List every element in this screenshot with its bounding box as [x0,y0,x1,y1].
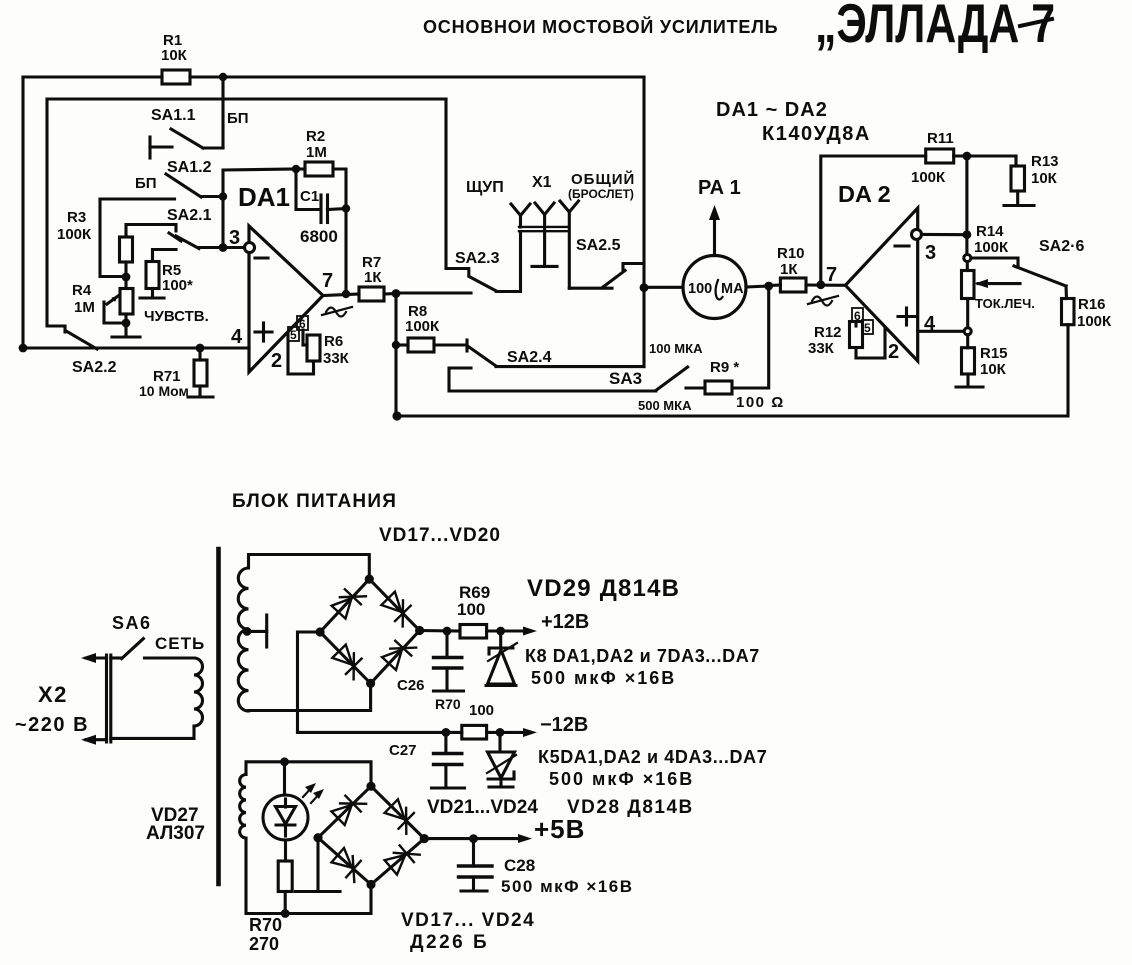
ground bar (X1 bracelet) [532,265,557,268]
svg-text:2: 2 [888,341,899,363]
svg-text:СЕТЬ: СЕТЬ [155,634,205,653]
switch SA2.2 [66,331,97,349]
wire: output to R7 [323,294,359,296]
wire: R11 rail [821,156,926,285]
wire: pin3 node to circle [223,246,245,249]
resistor R15 [962,335,975,386]
wire: R4 to ground [124,314,127,336]
wire: R5 bottom [151,289,154,298]
resistor R13 [1011,166,1025,191]
svg-text:SA3: SA3 [609,369,642,388]
svg-text:R12: R12 [814,324,842,341]
node: DA2 pin3 junction [963,230,972,239]
svg-text:SA2.2: SA2.2 [72,359,117,376]
ground (R13) [1004,204,1034,207]
meter PA1 [683,256,746,319]
wire: bridge2 right output [424,837,473,840]
svg-text:100К: 100К [974,239,1009,256]
node: bridge2 bottom [366,880,375,889]
svg-text:VD17... VD24: VD17... VD24 [401,910,535,931]
svg-text:R16: R16 [1078,296,1106,313]
title: ЭЛЛАДА 7 [815,0,1055,54]
svg-text:МА: МА [721,281,744,297]
-12V arrow [500,728,537,737]
svg-text:1К: 1К [364,269,382,286]
transformer primary winding [194,658,203,726]
wire: ОБЩИЙ to SA2.5 [569,287,612,290]
wire: SA2.1 to pin3 node [199,246,223,249]
node: R8 junction [392,341,400,349]
svg-text:С1: С1 [300,188,319,205]
wire: primary bottom [111,726,194,738]
resistor R70 (100) [462,725,487,739]
svg-text:SA2·6: SA2·6 [1039,238,1084,255]
svg-text:С26: С26 [397,677,425,694]
svg-text:R15: R15 [980,345,1008,362]
diode VD18 (bridge1 upper-right) [381,592,401,612]
node: left feedback to pin4 [19,344,28,353]
resistor R8 [396,338,466,352]
node: meter left junction [640,283,649,292]
svg-text:Д226 Б: Д226 Б [410,932,489,953]
svg-text:R13: R13 [1031,153,1059,170]
svg-text:SA1.2: SA1.2 [167,159,212,176]
svg-text:VD28 Д814В: VD28 Д814В [567,797,694,818]
rectifier bridge 1 diamond [320,579,420,683]
connector X2 plug [107,655,111,742]
transformer secondary winding 1 [238,568,248,711]
svg-text:DA1: DA1 [238,182,290,212]
transformer secondary winding 2 [240,775,246,839]
svg-text:6800: 6800 [300,227,338,246]
diode VD22 (bridge2 upper-right) [385,799,405,819]
switch SA2.6 [971,258,1066,286]
node: LED branch top [280,757,289,766]
svg-text:ЧУВСТВ.: ЧУВСТВ. [144,308,209,325]
resistor R10 [780,278,806,292]
R4 wiper arrow [104,296,126,323]
resistor R4 (trimmer) [120,289,133,315]
svg-text:7: 7 [826,264,837,286]
svg-text:1М: 1М [74,299,95,316]
wire: R13 to ground [1016,191,1019,205]
svg-text:270: 270 [249,934,279,954]
svg-text:100К: 100К [405,318,440,335]
svg-text:3: 3 [229,227,240,249]
meter scale text 100 µА [688,281,744,297]
wire: LED to R70 [284,840,287,861]
center tap chassis [247,615,267,647]
op-amp DA1 [249,226,323,372]
node: bridge1 bottom [366,679,375,688]
ground (C28) [461,889,487,892]
svg-text:500 МКА: 500 МКА [638,398,692,413]
svg-text:5: 5 [864,321,871,335]
svg-text:БП: БП [227,110,249,127]
node: R11/R13 junction [963,152,972,161]
DA1 output sine symbol [322,307,352,317]
+12V arrow [501,627,537,636]
op-amp DA2 [845,208,917,361]
resistor R3 [120,237,133,262]
svg-text:R10: R10 [777,245,805,262]
svg-text:5: 5 [290,328,297,342]
wire: R5 top to SA2.1 throw [153,250,177,262]
wire: bridge1 right output [420,629,460,633]
ground (R5) [140,296,164,299]
DA1 minus sign [255,256,268,259]
wire: secondary2 top rail [246,762,371,786]
wire: secondary2 bottom rail [246,838,371,914]
ground (bridge2) [296,890,341,893]
svg-text:С27: С27 [389,742,417,759]
resistor R11 [926,149,954,163]
svg-text:(БРОСЛЕТ): (БРОСЛЕТ) [568,187,634,201]
svg-text:R70: R70 [249,915,282,935]
wire: R12 loop to pin2 [856,328,885,358]
DA2 minus sign [895,244,909,247]
rectifier bridge 2 diamond [318,786,424,884]
diode VD24 (bridge2 lower-right) [385,855,406,875]
node: pin3 junction [219,243,228,252]
node: R3/R4 junction [122,273,131,282]
wire: left feedback vertical [21,77,24,348]
wire: tall vertical from top rail to meter node [642,77,645,288]
DA2 inverting circle (pin 3) [912,229,922,239]
node: VD29 junction [496,627,505,636]
switch SA1.1 [150,129,223,158]
svg-text:X1: X1 [532,174,552,191]
wire: R11 right [954,154,1016,157]
wire: vertical SA1.2 node to pin3 node [221,197,224,248]
wire: SA1.1 drop [221,77,224,148]
node: VD28 junction [496,728,505,737]
LED light arrows [303,783,324,803]
zener VD29 [486,631,517,686]
diode VD21 (bridge2 upper-left) [331,805,351,825]
wire: R7 to junction [384,292,396,296]
svg-text:100: 100 [688,281,712,297]
wire: R9 to meter right node [732,286,769,388]
resistor R9 [705,381,732,394]
svg-text:DA1 ~ DA2: DA1 ~ DA2 [716,99,828,121]
svg-text:10 Мом: 10 Мом [139,383,189,399]
svg-text:R4: R4 [72,282,92,299]
wire: top rail left segment [23,75,162,78]
resistor R70 (270) [278,861,292,892]
switch SA1.2 [166,174,223,197]
ground (R71) [188,395,213,398]
node: bridge1 left [316,627,325,636]
wire: R69 out [487,629,501,632]
node: bridge2 left [313,833,322,842]
svg-text:100К: 100К [1077,313,1112,330]
svg-text:500 мкФ ×16В: 500 мкФ ×16В [531,668,676,688]
svg-text:РА 1: РА 1 [698,177,741,199]
R14 wiper arrow [975,279,1021,288]
DA1 plus sign [255,323,272,341]
wire: pin3 to node [922,233,967,236]
resistor R5 [146,262,159,289]
wire: pin4 line [23,346,249,349]
svg-text:100К: 100К [911,169,946,186]
switch SA6 [111,639,194,659]
svg-text:500 мкФ ×16В: 500 мкФ ×16В [549,769,694,789]
wire: R2 leads [296,167,305,170]
wire: pin3 node down [965,156,968,255]
svg-text:VD21...VD24: VD21...VD24 [427,797,538,818]
wire: 100МКА vertical [642,288,645,367]
svg-text:R6: R6 [324,333,343,350]
node: R4 bottom [122,319,131,328]
svg-text:33К: 33К [323,350,350,367]
svg-text:10К: 10К [161,47,188,64]
node: bridge1 top [365,575,374,584]
svg-text:7: 7 [322,270,333,292]
svg-text:10К: 10К [980,361,1007,378]
slash through 7 of ЭЛЛАДА 7 [1020,19,1052,26]
svg-text:100: 100 [469,702,494,719]
ground (C26) [434,689,464,692]
svg-text:+12В: +12В [541,611,589,633]
switch SA3 [656,367,688,391]
wire: pin4 line [918,330,964,333]
X2 arrow bottom [81,735,107,745]
node: bridge2 right [420,834,429,843]
svg-text:100К: 100К [57,226,92,243]
node: R7/R8 junction [392,289,401,298]
resistor R2 [305,162,333,176]
node: bridge1 right [415,626,424,635]
svg-text:SA2.1: SA2.1 [167,207,212,224]
svg-text:R70: R70 [435,696,461,712]
wire: bottom rail [396,325,1068,416]
wire: R13 feed [1014,156,1017,166]
wire: R8 branch vertical [394,294,397,417]
svg-text:500 мкФ ×16В: 500 мкФ ×16В [501,877,634,896]
node: R70 bottom [281,909,290,918]
svg-text:100 МКА: 100 МКА [649,341,703,356]
svg-text:100 Ω: 100 Ω [736,394,785,411]
svg-text:R11: R11 [927,130,954,147]
node: R2/C1 left [292,165,300,173]
wire: secondary1 top to bridge1 [249,555,370,580]
wire: main line to SA2.3 [396,291,471,294]
switch SA2.1 [169,233,199,249]
wire: R3 top to SA2.1 contact [126,225,176,238]
+5V arrow [474,834,533,843]
switch SA2.5 [602,264,644,288]
connector X1 probe ЩУП [511,204,530,227]
diode VD17 (bridge1 upper-left) [332,598,352,618]
node: bridge2 top [366,782,375,791]
svg-text:ОБЩИЙ: ОБЩИЙ [571,170,635,188]
wire: R9 left lead [686,386,705,389]
wire: R3 top feed [100,199,175,277]
svg-text:SA1.1: SA1.1 [151,107,196,124]
svg-text:ОСНОВНОИ МОСТОВОЙ УСИЛИТЕЛЬ: ОСНОВНОИ МОСТОВОЙ УСИЛИТЕЛЬ [423,16,778,37]
svg-text:R2: R2 [306,128,325,145]
capacitor C1 [296,169,346,223]
X1 connector double bar [519,227,568,231]
resistor R14 (trimmer) [962,262,975,328]
X2 arrow top [81,653,107,663]
svg-text:VD29 Д814В: VD29 Д814В [527,575,680,602]
wire: SA2.6 to R16 [1064,286,1068,299]
svg-text:ТОК.ЛЕЧ.: ТОК.ЛЕЧ. [975,296,1035,311]
svg-text:К8 DA1,DA2 и 7DA3...DA7: К8 DA1,DA2 и 7DA3...DA7 [525,646,760,666]
svg-text:1К: 1К [780,261,798,278]
node: R71 junction [196,344,205,353]
svg-text:+5В: +5В [534,814,585,844]
wire: R6 bottom loop to pin2 [288,333,314,374]
svg-text:К140УД8А: К140УД8А [762,123,871,145]
wire: meter left lead [644,286,683,289]
svg-text:С28: С28 [504,856,535,875]
node: C1 right [342,204,350,212]
resistor R7 [359,287,384,301]
diode VD23 (bridge2 lower-left) [332,848,353,868]
node: bottom rail left [392,411,401,420]
wire: -12 rail [298,731,462,734]
svg-text:DA 2: DA 2 [838,181,891,207]
svg-text:−12В: −12В [540,714,588,736]
connector X1 probe ОБЩИЙ [560,201,579,288]
resistor R1 [162,70,190,84]
svg-text:VD17...VD20: VD17...VD20 [379,525,501,546]
wire: secondary1 bottom to bridge1 [249,683,371,711]
node: C28 junction [469,834,478,843]
node: pin4 circle [964,328,971,335]
node: junction R1/SA1.1 [219,73,227,81]
svg-text:К5DA1,DA2 и 4DA3...DA7: К5DA1,DA2 и 4DA3...DA7 [538,747,767,767]
LED VD27 [263,762,308,840]
resistor R16 [1062,299,1075,325]
node: secondary1 center tap [243,627,252,636]
svg-text:R3: R3 [67,209,86,226]
node: DA1 output [342,290,350,298]
svg-text:R14: R14 [976,223,1004,240]
svg-text:SA2.5: SA2.5 [576,237,621,254]
meter arrow [709,205,720,256]
svg-text:SA2.3: SA2.3 [455,250,500,267]
svg-text:SA6: SA6 [112,613,152,633]
svg-text:1М: 1М [306,144,327,161]
svg-text:SA2.4: SA2.4 [507,349,552,366]
svg-text:3: 3 [925,242,936,264]
node: SA1.2 junction [219,192,227,200]
ground (R15) [956,385,983,388]
wire: meter right lead [746,286,769,287]
resistor R12 [850,322,863,348]
capacitor C27 [434,732,462,787]
node: pin7 junction DA2 [816,280,825,289]
resistor R69 [460,625,487,639]
switch SA2.3 [446,99,521,292]
wire: R70 bottom [284,892,287,914]
connector X1 center probe [535,203,554,266]
wire: R3 bottom lead [124,262,127,289]
svg-text:100: 100 [457,600,485,619]
DA2 plus sign [898,308,915,325]
switch SA2.4 [467,340,644,367]
svg-text:~220 В: ~220 В [15,714,89,736]
wire: feedback rail down to R7 node [344,209,347,295]
transformer core [216,549,221,884]
svg-text:100*: 100* [162,277,193,294]
node: R14 top circle [964,255,971,262]
wire: R2 feed from SA1.2 node [223,169,296,197]
node: C27 junction [442,728,451,737]
ground (R4) [112,335,140,338]
capacitor C26 [434,631,462,690]
zener VD28 [487,732,516,786]
wire: second rail (БП net) [47,99,446,332]
svg-text:БЛОК ПИТАНИЯ: БЛОК ПИТАНИЯ [232,491,397,512]
ground (C27) [432,786,465,789]
DA1 pin 5/6 boxes [288,316,308,342]
wire: SA3 bracket [449,368,656,391]
wire: R10 to DA2 apex [806,283,845,286]
svg-text:2: 2 [271,350,282,372]
wire: R10 left lead [769,283,781,287]
wire: bridge2 left to ground [316,838,319,891]
wire: R70 out [487,731,500,734]
wire: bridge1 left to -12 rail [298,632,321,732]
DA1 inverting input circle (pin 3) [245,243,255,253]
DA2 sine symbol [808,296,838,306]
diode VD19 (bridge1 lower-left) [332,645,352,665]
resistor R71 [194,348,207,396]
svg-text:4: 4 [231,326,243,348]
node: C26 junction [443,627,452,636]
resistor R6 [307,335,320,361]
svg-text:БП: БП [135,175,157,192]
DA2 pin 5/6 boxes [852,308,873,335]
svg-text:33К: 33К [808,340,835,357]
node: meter right junction [764,282,773,291]
capacitor C28 [459,839,493,890]
svg-text:АЛ307: АЛ307 [146,823,205,844]
svg-text:X2: X2 [38,682,68,707]
wire: pin6 to R6 [301,330,304,345]
meter µ curl [716,280,723,300]
ground (VD28) [489,785,513,788]
wire: top rail right segment [190,75,644,78]
svg-text:10К: 10К [1031,170,1058,187]
diode VD20 (bridge1 lower-right) [382,650,402,670]
svg-text:ЩУП: ЩУП [466,179,504,196]
svg-text:R9 *: R9 * [710,359,739,376]
